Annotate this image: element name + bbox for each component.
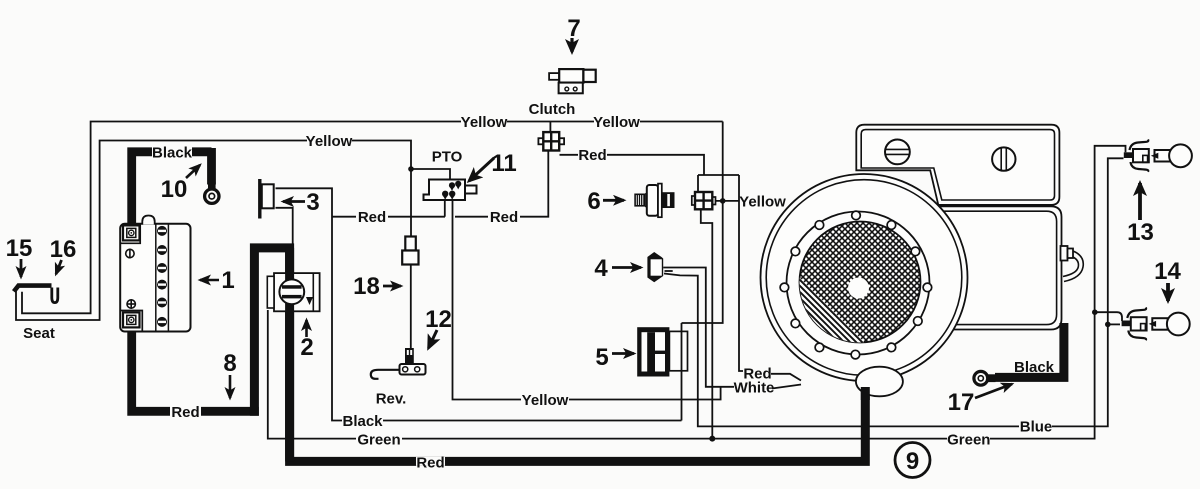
item6 flange [658, 184, 662, 218]
svg-text:Yellow: Yellow [522, 392, 569, 409]
seat clip U (item 16) [52, 288, 58, 303]
PTO switch tab [465, 186, 477, 194]
arrow 8 [229, 375, 232, 398]
arrow 6 [603, 199, 624, 202]
lamp13 bulb insert arrow [1151, 153, 1159, 159]
svg-text:Yellow: Yellow [739, 194, 786, 211]
label Yellow (top line, right of clutch) [594, 112, 640, 130]
svg-text:15: 15 [6, 235, 33, 262]
svg-text:White: White [734, 380, 775, 397]
svg-text:Clutch: Clutch [529, 101, 576, 118]
lamp14 bulb insert arrow [1149, 321, 1157, 327]
svg-text:11: 11 [491, 150, 516, 177]
svg-text:Red: Red [171, 404, 199, 421]
item5 block [637, 327, 669, 376]
screen center cap [848, 278, 869, 299]
lamp14 socket clips [1127, 308, 1146, 319]
wire black riser from item5 area [681, 323, 683, 421]
wire green run [402, 438, 947, 440]
bolt ring [787, 212, 930, 355]
arrow 18 [383, 285, 401, 288]
arrow 11 [469, 158, 494, 181]
wire blue from item4 bottom pin [664, 274, 1019, 427]
svg-text:Red: Red [358, 209, 386, 226]
bracket screw right [992, 147, 1015, 170]
lamp13 socket clips [1130, 140, 1149, 151]
arrow 17 [975, 384, 1012, 398]
muffler bump [856, 367, 903, 397]
wire black bottom run [383, 420, 682, 422]
item3 mount plate line [258, 179, 261, 219]
wire top-yellow drop through junction to item5 backing [682, 122, 723, 324]
battery body [120, 224, 190, 332]
wire yellow bottom (to white tee) [569, 387, 721, 400]
item6 body [647, 185, 658, 216]
item6 thread [635, 194, 645, 206]
arrow 5 [612, 352, 634, 355]
clutch right block [583, 70, 595, 82]
wire connector top pin [697, 175, 699, 192]
clutch nub [549, 73, 559, 80]
arrow 1 [200, 279, 219, 282]
svg-text:Green: Green [357, 432, 400, 449]
svg-text:12: 12 [425, 306, 452, 333]
bracket screw left [885, 140, 910, 165]
svg-text:14: 14 [1154, 258, 1181, 285]
cable red battery positive (item 8) [132, 326, 259, 411]
leader white to engine rim [772, 385, 801, 389]
battery positive terminal (bottom) [123, 312, 140, 327]
cable main solenoid-engine (thick red run) [254, 248, 865, 462]
junction dot (411,169) [408, 166, 414, 172]
wire from item18 connector down to reverse switch [410, 264, 412, 349]
seat switch bar (item 15) [14, 286, 52, 292]
svg-text:Yellow: Yellow [593, 114, 640, 131]
engine right connector [1061, 246, 1068, 261]
svg-text:7: 7 [567, 15, 580, 42]
screen disk with crosshatch [772, 75, 945, 485]
lamp14 socket body [1131, 317, 1147, 330]
solenoid body [274, 273, 320, 311]
arrow 4 [612, 266, 641, 269]
cable through solenoid (redraw over body) [285, 248, 294, 462]
ring terminal 17 [988, 374, 996, 382]
rev switch plate [400, 364, 426, 375]
wire green branch to lamp14 [1095, 312, 1122, 321]
lamp14 pin block [1122, 321, 1131, 327]
arrow 2 [305, 320, 308, 337]
svg-text:Red: Red [490, 209, 518, 226]
cable black battery negative (item 10) [132, 148, 212, 228]
wire item3 bottom pin to solenoid cable [276, 208, 293, 244]
label Red (bottom run) : gap in cable [416, 457, 445, 466]
item6 terminal [662, 192, 675, 208]
svg-text:8: 8 [223, 350, 236, 377]
cable black ground strap [995, 323, 1064, 377]
solenoid terminal circle [279, 279, 304, 304]
engine block body [900, 206, 1062, 329]
item18 upper rect [405, 237, 416, 251]
arrow 7 [570, 38, 573, 52]
battery terminal partition bottom [120, 311, 142, 331]
rev switch connector block [405, 348, 414, 365]
svg-text:9: 9 [906, 448, 919, 475]
lamp14 bulb globe [1167, 313, 1190, 336]
ring terminal (item 10 end) [205, 182, 219, 203]
battery negative terminal (top) [123, 225, 140, 240]
svg-text:Red: Red [416, 455, 444, 472]
wire green to lamps riser [990, 146, 1126, 439]
item4 pin stub [665, 270, 673, 272]
arrow 15 [20, 259, 23, 277]
wire white from item4 top pin [663, 268, 734, 387]
svg-text:5: 5 [595, 344, 608, 371]
solenoid small arrow detail [306, 297, 313, 305]
svg-text:10: 10 [161, 176, 188, 203]
wire PTO bottom pin B down to yellow bottom wire [453, 199, 522, 400]
leader red to engine rim [771, 374, 801, 381]
battery cells (6 caps) [157, 226, 167, 327]
svg-text:Rev.: Rev. [376, 391, 407, 408]
wire green from solenoid bracket [268, 310, 356, 439]
svg-text:Red: Red [578, 147, 606, 164]
svg-text:PTO: PTO [432, 149, 463, 166]
lamp14 bulb base [1152, 318, 1168, 330]
lamp13 bulb base [1155, 150, 1171, 162]
svg-text:Seat: Seat [23, 325, 55, 342]
starter cable over bump [861, 387, 870, 400]
item5 backing plate [669, 331, 687, 370]
item4 hex body [647, 252, 663, 282]
engine mount bracket [856, 125, 1059, 205]
svg-text:2: 2 [300, 334, 313, 361]
junction dot (722.7,200.9) [720, 198, 726, 204]
wire yellow label line at connector [712, 200, 739, 202]
battery top bump [142, 216, 154, 225]
svg-text:3: 3 [306, 189, 319, 216]
solenoid body inner edge [312, 273, 314, 311]
wire horizontal y=175 (red tee above connector) [698, 174, 739, 176]
wire red drop to engine label [739, 175, 743, 371]
svg-text:4: 4 [594, 255, 608, 282]
clutch lower plate [559, 83, 583, 94]
battery terminal partition top [120, 225, 140, 244]
lamp13 socket body [1133, 149, 1149, 162]
lamp13 bulb globe [1169, 144, 1192, 167]
arrow 3 [283, 200, 305, 203]
arrow 14 [1166, 283, 1170, 301]
svg-text:Black: Black [342, 413, 383, 430]
item18 lower rect [402, 251, 418, 265]
item6 taper [645, 193, 647, 208]
arrow 16 [56, 260, 62, 274]
svg-text:6: 6 [587, 188, 600, 215]
wire PTO branch from junction [411, 169, 450, 180]
battery cell column lines [155, 225, 157, 331]
junction dot lamp14 blue (1107.8,324.4) [1105, 322, 1111, 328]
junction dot green (712.3,438.6) [709, 436, 715, 442]
svg-text:Yellow: Yellow [461, 114, 508, 131]
svg-text:17: 17 [948, 389, 975, 416]
svg-text:Black: Black [152, 145, 193, 162]
svg-text:1: 1 [221, 267, 234, 294]
lamp13 pin block [1124, 152, 1133, 158]
arrow 13 [1138, 183, 1142, 220]
wire red from clutch connector right to engine drop [560, 154, 579, 156]
circle 9 [895, 443, 930, 478]
battery plus symbol [127, 299, 136, 308]
item3 body [262, 184, 274, 208]
wire connector bottom pin to green dot [701, 209, 713, 438]
wire yellow second line (seat loop outer to PTO drop) [16, 141, 411, 321]
solenoid left bracket [267, 276, 274, 308]
wire item3 top pin to black bottom wire [276, 188, 343, 420]
engine connector arc wire [1064, 251, 1083, 282]
PTO pins [442, 181, 461, 200]
svg-text:Blue: Blue [1020, 419, 1053, 436]
arrow 12 [429, 330, 438, 348]
arrow 10 [186, 165, 200, 178]
svg-text:18: 18 [353, 273, 380, 300]
battery phi symbol [126, 249, 134, 259]
junction dot lamp14 green (1094.8,312.2) [1092, 309, 1098, 315]
blower housing outer [761, 174, 968, 381]
wire red (item3 to PTO pin, to clutch connector) [332, 151, 548, 217]
wire blue to lamps riser [1052, 158, 1124, 426]
PTO switch body [424, 180, 466, 201]
svg-text:Yellow: Yellow [306, 133, 353, 150]
svg-text:13: 13 [1127, 219, 1154, 246]
bolt holes [780, 211, 932, 359]
rev switch hook [371, 370, 400, 379]
wire PTO bottom pin A [444, 199, 446, 217]
clutch connector 2x2 [538, 122, 564, 151]
wire yellow top line (seat loop inner to clutch tee and engine corner) [22, 122, 723, 314]
wire blue branch to lamp14 [1108, 323, 1120, 325]
svg-text:16: 16 [50, 236, 77, 263]
svg-text:Black: Black [1014, 359, 1055, 376]
svg-text:Green: Green [947, 432, 990, 449]
clutch main body [559, 69, 583, 83]
